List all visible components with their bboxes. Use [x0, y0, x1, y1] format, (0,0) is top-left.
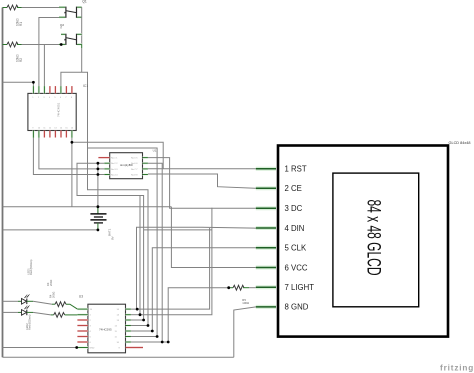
svg-text:BAT1: BAT1 — [108, 228, 112, 236]
wire GND rail to GLCD pin8 — [234, 307, 256, 357]
svg-text:R2: R2 — [19, 58, 23, 62]
node battery plus — [97, 205, 100, 208]
node R5 left — [227, 286, 230, 289]
node U1 pin4 — [97, 173, 100, 176]
wire vertical to shift register row2 — [139, 196, 141, 315]
wire light riser to resistor R5 — [168, 288, 229, 342]
svg-text:Q1: Q1 — [82, 0, 87, 4]
svg-text:4 DIN: 4 DIN — [285, 224, 305, 233]
svg-text:5 CLK: 5 CLK — [285, 244, 307, 253]
svg-text:GND: GND — [90, 348, 95, 350]
svg-text:2 CE: 2 CE — [285, 184, 302, 193]
LED LED1 — [18, 260, 33, 305]
svg-text:No.3 3: No.3 3 — [111, 169, 118, 171]
wire shift register row8 to ground bus — [3, 347, 78, 349]
node Q2 base — [60, 43, 63, 46]
svg-text:No.8 8: No.8 8 — [131, 175, 138, 177]
svg-text:200Ω: 200Ω — [52, 292, 56, 298]
LED LED2 — [18, 305, 33, 330]
wire Q1 collector to Q2 collector — [81, 7, 83, 44]
wire U1 right pin4 to GLCD CE — [148, 174, 256, 188]
IC IC1 — [28, 84, 88, 138]
IC1 bottom pin legs — [32, 131, 34, 138]
svg-text:100Ω: 100Ω — [242, 301, 249, 305]
transistor Q2 — [59, 23, 82, 48]
U1 left pin legs — [104, 162, 109, 164]
wire shift row4 extension — [131, 325, 148, 327]
node U3 row4 — [147, 324, 150, 327]
svg-text:9V: 9V — [111, 236, 115, 240]
U1 right pin legs — [143, 156, 148, 158]
IC U1 — [98, 149, 156, 179]
wire U1 right pin1 to GLCD DC — [148, 158, 256, 209]
svg-text:No.5 5: No.5 5 — [131, 158, 138, 160]
resistor R3 — [46, 280, 77, 309]
wire shift row3 extension — [131, 319, 144, 321]
svg-text:1 RST: 1 RST — [285, 165, 307, 174]
node U3 row1 — [136, 308, 139, 311]
wire battery plus rail — [3, 206, 172, 208]
svg-text:84 x 48 GLCD: 84 x 48 GLCD — [363, 200, 384, 276]
resistor R4 — [49, 292, 78, 318]
wire Q1 emitter to IC1 pin2 — [39, 18, 65, 87]
wire IC1 pin9 to U1 pin4 — [33, 138, 104, 175]
svg-text:7 LIGHT: 7 LIGHT — [285, 283, 315, 292]
wire shift row7 extension — [131, 341, 168, 343]
GLCD screen — [333, 173, 419, 307]
GLCD pin labels — [285, 165, 315, 312]
U3 left pin legs — [77, 308, 88, 310]
IC1 top pin legs — [32, 86, 34, 93]
wire R2 to Q2 base — [22, 44, 62, 46]
battery BAT1 — [90, 207, 114, 240]
svg-text:No.2 2: No.2 2 — [111, 163, 118, 165]
wire U1 left pin2 loop to shift register — [77, 163, 144, 320]
U3 right pin legs — [126, 308, 131, 310]
wire ground rail bottom — [3, 356, 234, 358]
GLCD pin stubs — [256, 167, 276, 171]
transistor Q1 — [59, 0, 87, 18]
svg-text:No.4 4: No.4 4 — [111, 175, 118, 177]
wire U1 right pin3 to GLCD RST — [148, 168, 256, 170]
svg-text:U1: U1 — [153, 149, 157, 153]
wire bus to IC1 pin1 — [3, 82, 34, 86]
wire LED1 to R3 — [33, 301, 52, 304]
wire IC1 pin16 to RST riser — [72, 142, 163, 169]
node U3 row5 — [151, 330, 154, 333]
wire battery minus rail — [3, 229, 100, 231]
svg-text:U3: U3 — [79, 295, 83, 299]
svg-text:No.6 6: No.6 6 — [131, 163, 138, 165]
wire LED2 to R4 — [33, 312, 51, 315]
svg-text:Red (633nm): Red (633nm) — [28, 315, 32, 330]
U3 pin labels — [90, 309, 121, 350]
resistor R2 — [3, 42, 23, 62]
wire R2 node to IC1 pin3 — [43, 45, 45, 87]
svg-text:6 VCC: 6 VCC — [285, 263, 308, 272]
node U3 row3 — [142, 319, 145, 322]
GLCD module — [256, 141, 471, 337]
svg-text:IC1: IC1 — [83, 84, 88, 88]
node U3 row6 — [156, 335, 159, 338]
node U3 row7b — [167, 341, 170, 344]
node U1 pin2 — [97, 162, 100, 165]
node IC1 pin1 bend — [32, 81, 35, 84]
U3 right pin8 unconnected — [126, 347, 144, 349]
svg-text:No.1 1: No.1 1 — [111, 158, 118, 160]
svg-text:R1: R1 — [19, 22, 23, 26]
wire CLK riser to GLCD pin5 — [152, 248, 256, 331]
svg-text:No.7 7: No.7 7 — [131, 169, 138, 171]
wire left bus — [2, 8, 4, 358]
wire shift row2 extension — [131, 314, 140, 316]
wire shift row5 extension — [131, 330, 152, 332]
wire IC1 pin6 to Q2 emitter node — [61, 72, 148, 325]
wire shift row6 extension — [131, 336, 157, 338]
wire U1 pin2 node to battery plus — [97, 163, 99, 214]
svg-text:74HC4051: 74HC4051 — [57, 102, 61, 117]
IC U3 shift register — [77, 295, 143, 353]
node U1 pin3 — [97, 168, 100, 171]
wire bus to LED2 — [3, 311, 19, 313]
resistor R5 — [229, 285, 256, 305]
wire branch to shift register row6 — [88, 148, 158, 337]
svg-text:fritzing: fritzing — [440, 364, 474, 373]
wire IC1 pin10 to U1 pin3 — [39, 138, 104, 169]
wire shift row1 to GLCD DIN — [131, 227, 256, 309]
svg-text:GLCD 84x48: GLCD 84x48 — [449, 141, 471, 145]
wire VCC riser to GLCD pin6 — [171, 207, 255, 268]
node U3 row7a — [161, 341, 164, 344]
svg-text:74HC595: 74HC595 — [99, 327, 112, 331]
wire IC1 pin16 down to battery plus rail — [71, 138, 73, 207]
wire U1 right pin2 to shift register row7 — [148, 163, 162, 342]
svg-text:8 GND: 8 GND — [285, 303, 309, 312]
wire bus to LED1 — [3, 300, 19, 302]
wire R1 to Q1 base — [22, 7, 60, 9]
IC1 pin numbers — [32, 97, 74, 130]
svg-text:Red (633nm): Red (633nm) — [29, 260, 33, 275]
resistor R1 — [3, 5, 23, 26]
svg-text:3 DC: 3 DC — [285, 204, 303, 213]
U1 pin labels — [111, 158, 138, 177]
node U3 row2 — [139, 313, 142, 316]
node battery minus — [97, 229, 100, 232]
wire Q2 emitter down — [81, 48, 83, 72]
node IC1 pin16 bend — [71, 141, 74, 144]
node U3 row8 left — [75, 346, 78, 349]
svg-text:200Ω: 200Ω — [49, 280, 53, 286]
U1 left pin1 unconnected — [98, 157, 109, 159]
